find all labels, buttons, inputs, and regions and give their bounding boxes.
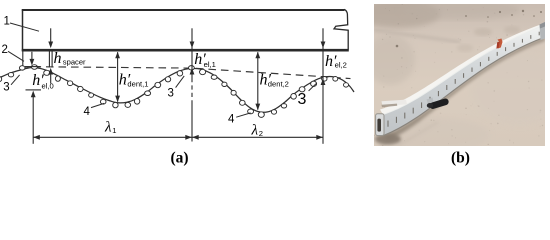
lambda dimension line xyxy=(33,136,323,138)
svg-text:3: 3 xyxy=(3,81,9,93)
svg-text:2: 2 xyxy=(2,44,8,56)
beam left end cap with hollow profile xyxy=(376,114,384,136)
pebbles near top edge xyxy=(396,10,542,48)
h_el,1 dimension arrows xyxy=(190,42,195,49)
svg-text:4: 4 xyxy=(228,113,235,125)
beam 1 (straightedge profile with break symbol) xyxy=(22,9,349,51)
svg-text:λ: λ xyxy=(104,119,112,135)
svg-text:dent,2: dent,2 xyxy=(268,79,289,88)
beam far end piece xyxy=(540,22,546,40)
h_dent,2 dimension arrow xyxy=(257,52,259,109)
svg-text:el,1: el,1 xyxy=(204,60,216,69)
red marker clamp xyxy=(498,39,503,49)
left spacer edge extension below beam xyxy=(22,51,24,70)
cross bracket foot at left end xyxy=(382,100,408,107)
svg-text:4: 4 xyxy=(84,106,91,118)
beam top edge line xyxy=(383,25,545,115)
beam bottom edge line xyxy=(384,37,546,136)
svg-text:1: 1 xyxy=(4,16,10,28)
svg-text:3: 3 xyxy=(168,87,174,99)
h_dent,1 dimension arrow xyxy=(117,52,119,101)
h_el,2 dimension arrows xyxy=(321,42,326,49)
svg-text:(a): (a) xyxy=(170,150,188,167)
black handle xyxy=(427,98,435,106)
svg-text:dent,1: dent,1 xyxy=(127,79,148,88)
beam top surface (sunlit) xyxy=(380,23,545,115)
h_spacer dimension arrows xyxy=(50,28,52,43)
svg-text:3: 3 xyxy=(298,91,307,108)
scale tick marks on beam face xyxy=(388,32,539,127)
faint footprints above beam xyxy=(474,28,492,36)
sand speckle texture xyxy=(374,4,544,147)
spacer block under beam at left xyxy=(48,51,50,67)
svg-text:2: 2 xyxy=(259,129,263,138)
right extension line xyxy=(322,28,324,144)
shadow under beam xyxy=(384,37,546,141)
svg-text:(b): (b) xyxy=(451,150,470,167)
svg-text:λ: λ xyxy=(251,122,259,138)
svg-text:1: 1 xyxy=(112,126,116,135)
svg-text:spacer: spacer xyxy=(63,57,86,66)
svg-text:el,2: el,2 xyxy=(335,60,347,69)
middle extension line at lambda junction xyxy=(191,28,193,78)
gravel stones along surface xyxy=(0,65,349,118)
ground surface profile curve 3 xyxy=(0,68,354,113)
dashed reference line through elevation peaks xyxy=(21,67,351,79)
svg-text:el,0: el,0 xyxy=(42,81,54,90)
beam face xyxy=(383,25,545,136)
svg-text:h: h xyxy=(54,50,62,67)
h_el,0 dimension (left elevation) xyxy=(31,52,33,59)
lambda1 left extension line xyxy=(32,97,34,144)
